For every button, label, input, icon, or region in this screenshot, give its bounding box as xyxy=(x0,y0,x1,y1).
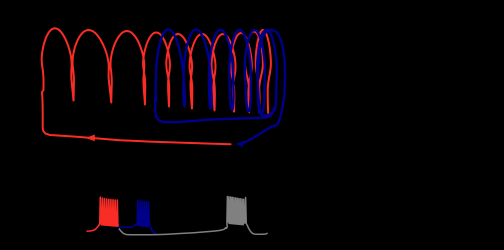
blue burst solid base xyxy=(138,221,150,228)
gray burst solid base xyxy=(228,207,245,226)
red burst solid base xyxy=(100,219,119,228)
red flow arrow on return line xyxy=(86,135,95,142)
blue envelope (slow return sweep of blue cycle) xyxy=(155,98,274,122)
red burst trajectory: return line + spiral loops xyxy=(42,28,271,144)
gray voltage trace with third burst xyxy=(119,197,268,235)
blue flow arrow xyxy=(236,141,244,147)
blue voltage burst trace xyxy=(118,201,157,234)
blue burst trajectory: spiral loops + exit to arrow xyxy=(156,30,285,143)
red voltage burst trace xyxy=(87,197,119,231)
